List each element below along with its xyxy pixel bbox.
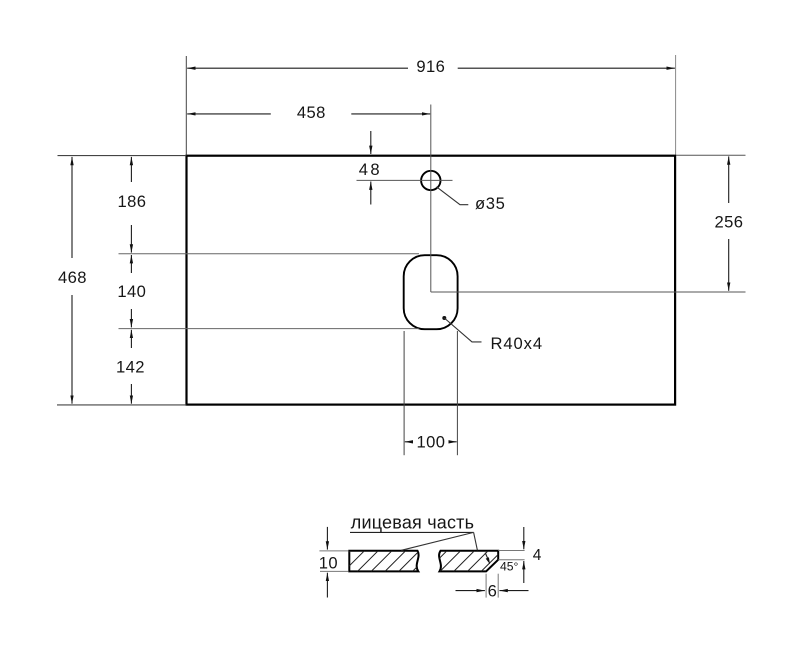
extension line panel top right [676,154,746,156]
panel outline [187,156,676,405]
dim 10 arrows [326,527,328,598]
svg-text:142: 142 [116,357,145,376]
svg-text:45°: 45° [500,559,519,573]
svg-text:256: 256 [715,212,744,231]
section left bar outline [349,551,418,572]
oblong hole R40x4 [404,255,458,329]
extension line oval top [119,253,420,255]
svg-text:лицевая часть: лицевая часть [351,513,474,533]
leader to right bar [474,532,478,550]
dim 140 line [130,255,132,327]
extension line right edge above panel [675,55,677,155]
dim 4 arrows [523,527,525,583]
dim 458 line [187,113,430,115]
svg-text:468: 468 [58,268,87,287]
dim 256 line [728,156,730,290]
svg-text:4: 4 [533,547,542,564]
leader ø35 [437,187,469,205]
leader to left bar [401,532,473,550]
svg-text:186: 186 [118,192,147,211]
dim 142 line [130,330,132,404]
dim 100 arrows [405,441,457,443]
extension lines chamfer 4 [498,550,524,552]
45 degree leader arrow [485,553,489,562]
horizontal centerline of oval extended right [431,291,746,293]
dim 468 line [71,157,73,404]
svg-text:140: 140 [117,282,146,301]
dim 186 line [130,157,132,253]
svg-text:6: 6 [488,581,497,600]
extension line panel top left [58,155,187,157]
extension line oval left below [403,331,405,455]
svg-text:ø35: ø35 [475,194,505,213]
extension lines thickness 10 [319,550,348,552]
extension line left edge above panel [185,56,187,155]
svg-text:48: 48 [359,160,382,179]
svg-text:916: 916 [416,57,445,76]
section right bar hatching [426,551,515,572]
vertical centerline through holes [430,105,432,293]
extension line panel bottom left [57,404,186,406]
svg-text:100: 100 [417,432,446,451]
faucet hole circle ø35 [421,171,440,190]
svg-text:10: 10 [319,554,338,573]
section left bar hatching [330,551,433,572]
dim 48 arrows [370,131,372,205]
svg-text:458: 458 [297,103,326,122]
extension lines chamfer 6 [485,574,487,598]
horizontal centerline of circle [357,179,453,181]
svg-text:R40x4: R40x4 [491,334,543,353]
dim 6 arrows [456,590,529,592]
extension line oval right below [456,331,458,455]
section right bar outline [439,551,498,572]
leader R40x4 with dot [442,316,446,320]
dim 916 line [187,67,675,69]
extension line oval bottom [119,328,419,330]
